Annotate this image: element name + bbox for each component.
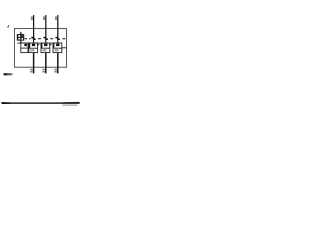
valve V1 cross xyxy=(31,37,34,39)
left stack B0 dark mark xyxy=(24,44,27,46)
dashed control bus xyxy=(25,38,27,40)
valve V3 cross xyxy=(56,37,59,39)
oscillator X1 thick left bar xyxy=(17,35,18,40)
stack S2 right tick xyxy=(49,44,51,46)
stack S3 gray text xyxy=(55,49,59,51)
wire V1 to stack xyxy=(33,40,35,43)
stack S2 dark mark xyxy=(44,44,47,46)
wire V3 to stack xyxy=(57,40,59,43)
oscillator X1 dark interior xyxy=(21,35,23,37)
stack S1 divider xyxy=(29,47,38,49)
figure caption smudge light tail xyxy=(12,73,14,75)
bottom right gray caption xyxy=(62,104,77,106)
bottom rule left wedge xyxy=(2,102,11,104)
lead L2 bottom wire xyxy=(45,53,47,74)
stack S2 left bar xyxy=(41,43,43,48)
enclosure box U1 xyxy=(14,29,66,68)
valve V2 cross xyxy=(44,37,47,39)
stack S1 gray text xyxy=(30,49,34,51)
stack S2 outline xyxy=(41,43,50,53)
left stack B0 outline xyxy=(21,43,28,53)
bottom rule right thick end xyxy=(63,102,80,104)
lead L1 bottom wire xyxy=(33,53,35,74)
oscillator X1 (left component) vertical wire xyxy=(20,32,22,43)
figure caption smudge mid part xyxy=(8,73,12,75)
lead L1 bottom label xyxy=(30,69,33,70)
stack S3 divider xyxy=(53,47,62,49)
lead L2 top label xyxy=(43,16,45,20)
stack S1 left bar xyxy=(29,43,31,48)
lead L3 top wire xyxy=(57,15,59,37)
stack row top rail xyxy=(17,42,62,44)
lead L3 bottom wire xyxy=(57,53,59,74)
left stack B0 divider xyxy=(21,47,28,49)
lead L3 top label xyxy=(55,16,57,20)
stack S3 outline xyxy=(53,43,62,53)
reference numeral 10 leader xyxy=(8,25,9,28)
lead L2 bottom label xyxy=(42,69,45,70)
lead L2 top wire xyxy=(45,15,47,37)
stack S2 divider xyxy=(41,47,50,49)
stack S2 gray text xyxy=(43,49,47,51)
stack S3 left bar xyxy=(53,43,55,48)
stack S1 outline xyxy=(29,43,38,53)
lead L3 bottom label xyxy=(54,69,57,70)
background xyxy=(0,0,80,114)
figure caption smudge dark part xyxy=(4,73,8,75)
lead L1 top wire xyxy=(33,15,35,37)
lead L1 top label xyxy=(31,16,33,20)
oscillator X1 body xyxy=(17,35,23,41)
bottom rule line xyxy=(2,102,80,104)
stack S1 dark mark xyxy=(32,44,35,46)
stack S3 dark mark xyxy=(56,44,59,46)
stack S1 right tick xyxy=(37,44,39,46)
stack S3 to right wall wire xyxy=(62,47,67,49)
wire V2 to stack xyxy=(45,40,47,43)
oscillator X1 mid bar xyxy=(17,36,23,38)
